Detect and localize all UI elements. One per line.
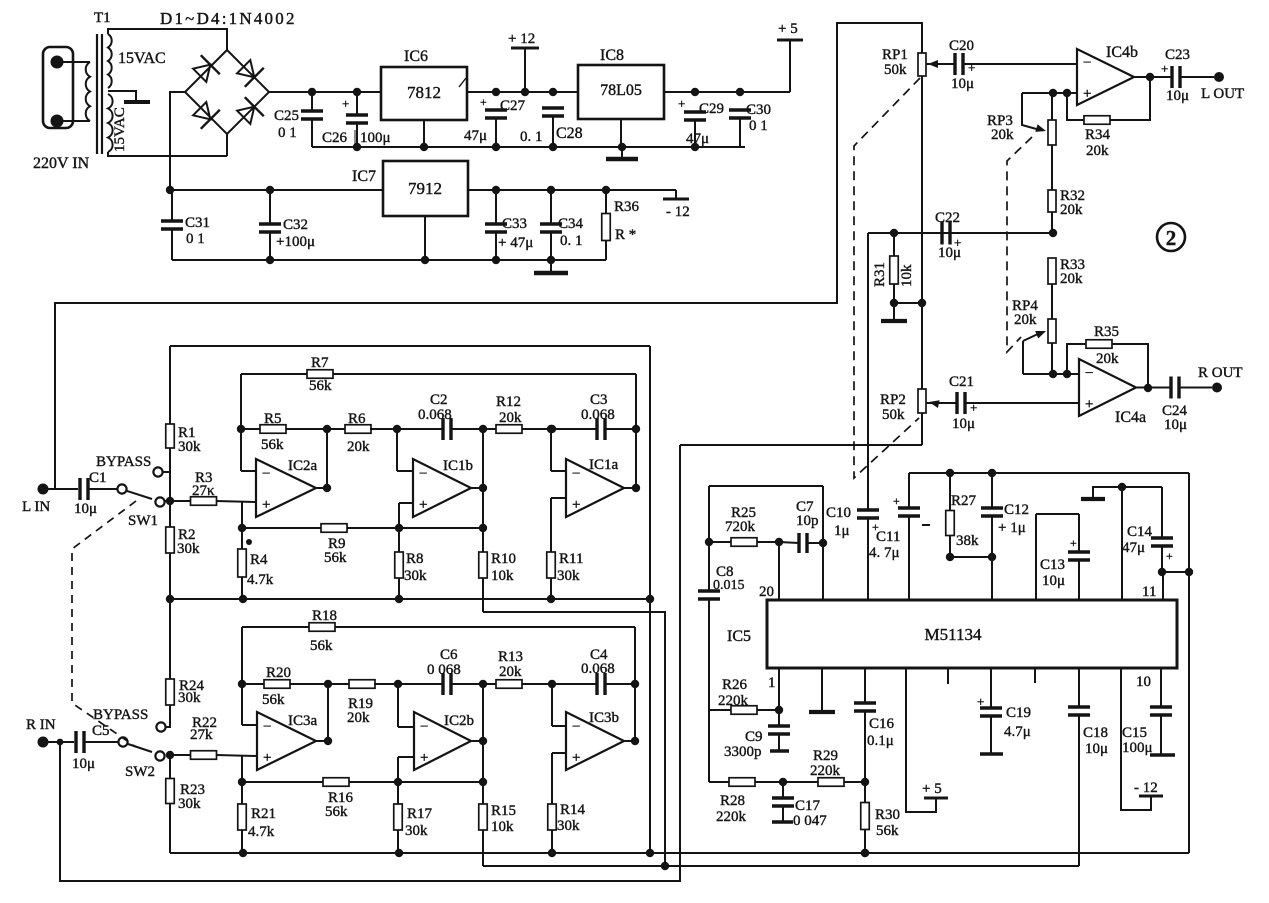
svg-text:+ 12: + 12 bbox=[508, 31, 535, 47]
svg-text:100μ: 100μ bbox=[1122, 740, 1153, 756]
svg-text:30k: 30k bbox=[177, 541, 200, 557]
svg-text:R13: R13 bbox=[498, 649, 523, 665]
svg-text:C15: C15 bbox=[1122, 725, 1147, 741]
svg-text:C29: C29 bbox=[699, 101, 724, 117]
svg-text:+: + bbox=[1161, 61, 1168, 76]
svg-text:2: 2 bbox=[1166, 226, 1177, 250]
svg-text:220k: 220k bbox=[716, 809, 747, 825]
svg-text:−: − bbox=[262, 466, 270, 482]
svg-text:R IN: R IN bbox=[26, 717, 56, 733]
svg-text:7812: 7812 bbox=[407, 83, 441, 102]
svg-text:C16: C16 bbox=[869, 716, 895, 732]
svg-text:10μ: 10μ bbox=[1042, 573, 1065, 589]
svg-text:R12: R12 bbox=[496, 394, 521, 410]
svg-text:SW2: SW2 bbox=[125, 764, 155, 780]
svg-text:56k: 56k bbox=[325, 804, 348, 820]
svg-text:20k: 20k bbox=[1060, 202, 1083, 218]
svg-text:IC2a: IC2a bbox=[288, 458, 318, 474]
svg-text:10k: 10k bbox=[491, 568, 514, 584]
svg-text:+: + bbox=[572, 497, 580, 513]
svg-text:30k: 30k bbox=[178, 439, 201, 455]
svg-text:L IN: L IN bbox=[22, 499, 50, 515]
svg-text:30k: 30k bbox=[557, 818, 580, 834]
svg-text:SW1: SW1 bbox=[128, 513, 158, 529]
svg-text:IC7: IC7 bbox=[352, 168, 376, 185]
svg-text:C34: C34 bbox=[558, 216, 584, 232]
svg-text:20k: 20k bbox=[1086, 143, 1109, 159]
svg-text:20k: 20k bbox=[1060, 271, 1083, 287]
svg-text:20k: 20k bbox=[499, 410, 522, 426]
svg-text:100μ: 100μ bbox=[360, 130, 391, 146]
svg-text:RP2: RP2 bbox=[880, 392, 906, 408]
svg-text:30k: 30k bbox=[178, 796, 201, 812]
svg-text:R7: R7 bbox=[311, 355, 329, 371]
svg-text:78L05: 78L05 bbox=[600, 82, 642, 99]
svg-text:L OUT: L OUT bbox=[1201, 86, 1244, 102]
svg-text:R35: R35 bbox=[1094, 324, 1119, 340]
svg-text:0 1: 0 1 bbox=[749, 118, 768, 134]
svg-text:C25: C25 bbox=[274, 108, 299, 124]
svg-text:+: + bbox=[572, 750, 580, 766]
svg-text:R26: R26 bbox=[722, 677, 748, 693]
svg-text:10μ: 10μ bbox=[951, 76, 974, 92]
svg-text:0.068: 0.068 bbox=[418, 407, 452, 423]
svg-text:10k: 10k bbox=[491, 819, 514, 835]
svg-text:C3: C3 bbox=[590, 392, 608, 408]
svg-text:4. 7μ: 4. 7μ bbox=[869, 545, 900, 561]
svg-text:+: + bbox=[419, 497, 427, 513]
svg-text:30k: 30k bbox=[404, 568, 427, 584]
svg-text:20k: 20k bbox=[499, 664, 522, 680]
svg-text:IC5: IC5 bbox=[727, 628, 751, 645]
svg-text:20k: 20k bbox=[1096, 351, 1119, 367]
svg-text:R36: R36 bbox=[614, 199, 640, 215]
svg-text:+: + bbox=[893, 494, 900, 508]
svg-text:C31: C31 bbox=[185, 215, 210, 231]
svg-text:−: − bbox=[419, 466, 427, 482]
svg-text:IC8: IC8 bbox=[600, 47, 624, 64]
svg-text:R17: R17 bbox=[407, 806, 433, 822]
svg-text:R6: R6 bbox=[348, 411, 366, 427]
svg-text:−: − bbox=[572, 466, 580, 482]
svg-text:IC3b: IC3b bbox=[589, 710, 619, 726]
svg-text:IC6: IC6 bbox=[404, 48, 428, 65]
svg-text:R8: R8 bbox=[406, 551, 424, 567]
svg-text:50k: 50k bbox=[884, 62, 907, 78]
svg-text:4.7μ: 4.7μ bbox=[1004, 724, 1031, 740]
svg-text:IC4a: IC4a bbox=[1115, 409, 1146, 426]
svg-text:3300p: 3300p bbox=[724, 744, 762, 760]
svg-text:0. 1: 0. 1 bbox=[520, 129, 543, 145]
svg-text:10μ: 10μ bbox=[1166, 88, 1189, 104]
svg-text:IC1b: IC1b bbox=[443, 458, 473, 474]
svg-text:R18: R18 bbox=[312, 608, 337, 624]
svg-text:56k: 56k bbox=[876, 823, 899, 839]
svg-text:15VAC: 15VAC bbox=[112, 107, 128, 152]
svg-text:IC4b: IC4b bbox=[1106, 44, 1138, 61]
svg-text:R20: R20 bbox=[266, 665, 291, 681]
svg-text:C27: C27 bbox=[500, 98, 526, 114]
svg-text:R27: R27 bbox=[951, 493, 977, 509]
svg-text:15VAC: 15VAC bbox=[118, 50, 166, 67]
svg-text:+: + bbox=[420, 750, 428, 766]
svg-text:20k: 20k bbox=[1014, 312, 1037, 328]
svg-text:RP1: RP1 bbox=[882, 47, 908, 63]
svg-text:1: 1 bbox=[768, 675, 776, 691]
svg-text:+: + bbox=[1070, 536, 1077, 550]
svg-text:47μ: 47μ bbox=[464, 128, 487, 144]
svg-text:20: 20 bbox=[759, 584, 774, 600]
svg-text:10μ: 10μ bbox=[1085, 741, 1108, 757]
svg-text:+: + bbox=[263, 750, 271, 766]
svg-text:+ 1μ: + 1μ bbox=[998, 520, 1026, 536]
svg-text:C11: C11 bbox=[876, 529, 900, 545]
svg-text:C33: C33 bbox=[502, 216, 527, 232]
svg-text:10μ: 10μ bbox=[1164, 417, 1187, 433]
svg-text:C1: C1 bbox=[89, 470, 107, 486]
svg-text:+: + bbox=[977, 694, 984, 709]
svg-text:C26: C26 bbox=[322, 130, 348, 146]
svg-text:BYPASS: BYPASS bbox=[93, 707, 148, 723]
svg-text:R30: R30 bbox=[875, 807, 900, 823]
svg-text:D1~D4:1N4002: D1~D4:1N4002 bbox=[160, 9, 297, 28]
svg-text:56k: 56k bbox=[310, 638, 333, 654]
svg-text:1μ: 1μ bbox=[834, 523, 850, 539]
svg-text:C9: C9 bbox=[745, 729, 763, 745]
svg-text:R15: R15 bbox=[491, 803, 516, 819]
svg-text:IC3a: IC3a bbox=[288, 713, 318, 729]
svg-text:4.7k: 4.7k bbox=[248, 824, 275, 840]
svg-text:- 12: - 12 bbox=[1134, 780, 1158, 796]
svg-text:10μ: 10μ bbox=[952, 416, 975, 432]
svg-text:C28: C28 bbox=[556, 125, 583, 142]
svg-text:C30: C30 bbox=[746, 102, 771, 118]
svg-text:R29: R29 bbox=[813, 748, 838, 764]
svg-text:R *: R * bbox=[615, 227, 636, 243]
svg-text:10μ: 10μ bbox=[72, 756, 95, 772]
svg-text:C12: C12 bbox=[1004, 502, 1029, 518]
svg-text:10k: 10k bbox=[899, 264, 915, 287]
svg-text:C17: C17 bbox=[795, 798, 821, 814]
svg-text:C14: C14 bbox=[1127, 524, 1153, 540]
svg-text:10: 10 bbox=[1136, 674, 1151, 690]
svg-text:10μ: 10μ bbox=[938, 245, 961, 261]
svg-text:C10: C10 bbox=[826, 505, 851, 521]
svg-text:4.7k: 4.7k bbox=[247, 572, 274, 588]
svg-text:0. 1: 0. 1 bbox=[560, 233, 583, 249]
svg-text:27k: 27k bbox=[190, 727, 213, 743]
svg-text:C2: C2 bbox=[430, 392, 448, 408]
svg-text:+100μ: +100μ bbox=[276, 234, 315, 250]
svg-text:0.068: 0.068 bbox=[581, 661, 615, 677]
svg-text:+: + bbox=[262, 497, 270, 513]
svg-text:0.1μ: 0.1μ bbox=[867, 733, 894, 749]
svg-text:R11: R11 bbox=[559, 551, 583, 567]
svg-text:720k: 720k bbox=[725, 519, 756, 535]
svg-text:C32: C32 bbox=[283, 217, 308, 233]
svg-text:C21: C21 bbox=[949, 374, 974, 390]
svg-text:+ 5: + 5 bbox=[778, 21, 798, 37]
svg-text:R34: R34 bbox=[1085, 127, 1111, 143]
svg-text:C22: C22 bbox=[935, 210, 960, 226]
svg-text:0.068: 0.068 bbox=[581, 407, 615, 423]
svg-text:C23: C23 bbox=[1165, 47, 1190, 63]
svg-text:30k: 30k bbox=[557, 568, 580, 584]
svg-text:IC1a: IC1a bbox=[589, 457, 619, 473]
svg-text:30k: 30k bbox=[178, 690, 201, 706]
svg-text:56k: 56k bbox=[324, 550, 347, 566]
svg-text:+: + bbox=[1085, 397, 1093, 413]
svg-text:+ 47μ: + 47μ bbox=[498, 235, 533, 251]
svg-text:50k: 50k bbox=[882, 407, 905, 423]
svg-text:+: + bbox=[342, 96, 349, 111]
svg-text:56k: 56k bbox=[262, 692, 285, 708]
svg-text:R21: R21 bbox=[251, 806, 276, 822]
svg-text:R10: R10 bbox=[491, 551, 516, 567]
svg-text:BYPASS: BYPASS bbox=[96, 454, 151, 470]
svg-text:+: + bbox=[968, 60, 975, 75]
svg-text:56k: 56k bbox=[261, 437, 284, 453]
svg-text:T1: T1 bbox=[94, 10, 111, 26]
svg-text:−: − bbox=[263, 719, 271, 735]
svg-text:56k: 56k bbox=[309, 378, 332, 394]
svg-text:220V IN: 220V IN bbox=[33, 155, 90, 172]
svg-text:C5: C5 bbox=[92, 723, 110, 739]
svg-text:R28: R28 bbox=[720, 793, 745, 809]
svg-text:27κ: 27κ bbox=[192, 483, 215, 499]
svg-text:R OUT: R OUT bbox=[1198, 365, 1243, 381]
svg-text:+: + bbox=[1083, 86, 1091, 102]
svg-text:C6: C6 bbox=[440, 647, 458, 663]
svg-text:R14: R14 bbox=[560, 802, 586, 818]
svg-text:0 1: 0 1 bbox=[186, 231, 205, 247]
svg-text:IC2b: IC2b bbox=[444, 713, 474, 729]
svg-text:220k: 220k bbox=[718, 693, 749, 709]
svg-text:30k: 30k bbox=[405, 823, 428, 839]
svg-text:−: − bbox=[1083, 55, 1091, 71]
svg-text:C18: C18 bbox=[1083, 725, 1108, 741]
svg-text:0 068: 0 068 bbox=[427, 662, 461, 678]
svg-text:38k: 38k bbox=[956, 533, 979, 549]
svg-text:10p: 10p bbox=[796, 513, 819, 529]
svg-text:R5: R5 bbox=[264, 411, 282, 427]
svg-text:0 1: 0 1 bbox=[278, 125, 297, 141]
svg-text:−: − bbox=[1085, 366, 1093, 382]
svg-text:10μ: 10μ bbox=[74, 501, 97, 517]
svg-text:0 047: 0 047 bbox=[793, 813, 827, 829]
svg-text:R4: R4 bbox=[250, 552, 268, 568]
svg-text:R31: R31 bbox=[872, 262, 888, 287]
svg-text:0.015: 0.015 bbox=[713, 578, 745, 593]
svg-text:47μ: 47μ bbox=[1122, 540, 1145, 556]
svg-text:C20: C20 bbox=[949, 38, 974, 54]
svg-text:−: − bbox=[420, 719, 428, 735]
svg-text:C13: C13 bbox=[1040, 557, 1065, 573]
svg-text:- 12: - 12 bbox=[666, 204, 690, 220]
svg-text:11: 11 bbox=[1142, 584, 1156, 600]
svg-text:20k: 20k bbox=[347, 439, 370, 455]
svg-text:220k: 220k bbox=[810, 763, 841, 779]
svg-text:M51134: M51134 bbox=[925, 625, 982, 644]
svg-text:20k: 20k bbox=[347, 710, 370, 726]
svg-text:C19: C19 bbox=[1006, 705, 1031, 721]
svg-text:+: + bbox=[1166, 549, 1173, 563]
svg-text:−: − bbox=[572, 719, 580, 735]
svg-text:+ 5: + 5 bbox=[922, 781, 942, 797]
svg-text:+: + bbox=[480, 95, 487, 109]
svg-text:+: + bbox=[678, 96, 685, 111]
svg-text:7912: 7912 bbox=[408, 179, 442, 198]
svg-text:20k: 20k bbox=[991, 127, 1014, 143]
